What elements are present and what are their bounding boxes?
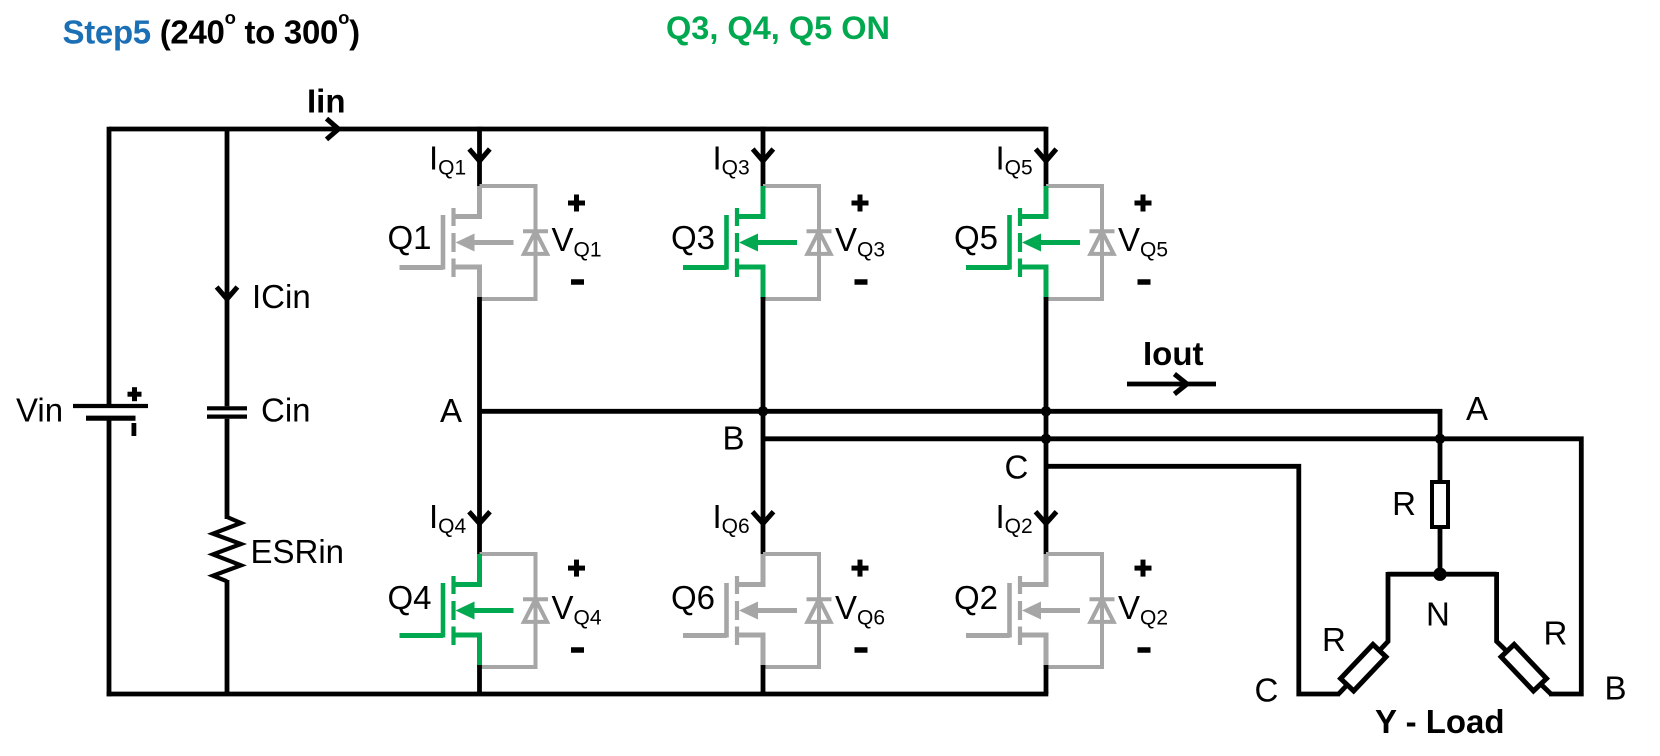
polarity + of VQ2 — [1135, 560, 1152, 577]
wire leg bottom of Q4 — [477, 665, 482, 694]
wire R to node N — [1438, 527, 1443, 574]
wire leg middle (Q3-Q6) — [761, 297, 766, 556]
transistor Q1 — [400, 186, 514, 299]
polarity + of VQ1 — [568, 195, 585, 212]
svg-text:Q2: Q2 — [954, 579, 998, 616]
label VQ4 — [552, 589, 602, 630]
current arrow ICin — [217, 287, 238, 299]
capacitor Cin — [207, 408, 247, 416]
current arrow IQ4 — [469, 512, 490, 524]
polarity - of VQ4 — [571, 647, 584, 653]
label ICin — [252, 278, 311, 315]
svg-text:Q3, Q4, Q5 ON: Q3, Q4, Q5 ON — [666, 10, 890, 46]
wire node N horizontal — [1387, 572, 1496, 577]
svg-text:Vin: Vin — [16, 392, 63, 429]
label Q6 — [671, 579, 715, 616]
svg-text:Cin: Cin — [261, 392, 311, 429]
label R (phase C) — [1322, 621, 1346, 658]
polarity + of VQ5 — [1135, 195, 1152, 212]
label Iin — [307, 83, 346, 120]
polarity - of VQ2 — [1138, 647, 1151, 653]
wire leg bottom of Q6 — [761, 665, 766, 694]
current arrow IQ5 — [1036, 149, 1057, 161]
transistor Q5 — [966, 186, 1080, 299]
label VQ1 — [552, 221, 602, 262]
wire Cin branch lower — [225, 580, 230, 694]
junction dot N — [1433, 568, 1446, 581]
label Q3 — [671, 219, 715, 256]
body diode of Q5 — [1090, 231, 1115, 254]
svg-text:Q1: Q1 — [387, 219, 431, 256]
label IQ6 — [713, 498, 750, 538]
wire leg middle (Q1-Q4) — [477, 297, 482, 556]
wire leg middle (Q5-Q2) — [1044, 297, 1049, 556]
wire phase B — [763, 439, 1581, 694]
label IQ1 — [429, 140, 466, 180]
polarity - of VQ5 — [1138, 279, 1151, 285]
label node B (load) — [1605, 670, 1627, 707]
wire phase C — [1046, 466, 1340, 694]
junction dot phase A wire / phase B wire crossing — [1435, 434, 1445, 444]
svg-text:Q5: Q5 — [954, 219, 998, 256]
svg-text:R: R — [1392, 485, 1416, 522]
transistor Q3 — [683, 186, 797, 299]
wire leg drain of Q3 — [761, 127, 766, 188]
svg-text:R: R — [1544, 615, 1568, 652]
label IQ4 — [429, 498, 467, 538]
svg-text:Y - Load: Y - Load — [1375, 703, 1505, 740]
title Q3, Q4, Q5 ON — [666, 10, 890, 46]
current arrow IQ6 — [753, 512, 774, 524]
svg-text:Q3: Q3 — [671, 219, 715, 256]
svg-text:B: B — [723, 420, 745, 457]
title Step5 (240deg to 300deg) — [63, 7, 360, 51]
label R (phase B) — [1544, 615, 1568, 652]
wire load branch C (N to C corner) — [1339, 572, 1388, 694]
wire Cin branch middle — [225, 419, 230, 519]
svg-text:Iout: Iout — [1143, 335, 1203, 372]
wire leg drain of Q5 — [1044, 127, 1049, 188]
body diode of Q6 — [807, 599, 832, 622]
svg-text:B: B — [1605, 670, 1627, 707]
junction dot phase A / leg B crossing — [758, 406, 768, 416]
wire drain-source loop of Q4 — [480, 554, 536, 667]
label VQ6 — [835, 589, 885, 630]
wire left vertical upper (Vin branch) — [107, 127, 112, 405]
body diode of Q3 — [807, 231, 832, 254]
label node A (at leg) — [440, 392, 462, 429]
label Q1 — [387, 219, 431, 256]
resistor R (phase A) — [1432, 482, 1448, 527]
label node C (load) — [1255, 672, 1279, 709]
wire leg drain of Q1 — [477, 127, 482, 188]
label VQ5 — [1118, 221, 1168, 262]
label Vin — [16, 392, 63, 429]
current arrow Iin — [327, 119, 339, 140]
body diode of Q1 — [523, 231, 548, 254]
label Iout — [1143, 335, 1203, 372]
body diode of Q2 — [1090, 599, 1115, 622]
battery Vin — [73, 387, 148, 436]
transistor Q2 — [966, 554, 1080, 667]
label Q2 — [954, 579, 998, 616]
svg-text:Step5 (240o to 300o): Step5 (240o to 300o) — [63, 7, 360, 51]
transistor Q4 — [400, 554, 514, 667]
label node B (at leg) — [723, 420, 745, 457]
label IQ2 — [996, 498, 1033, 538]
wire drain-source loop of Q2 — [1046, 554, 1102, 667]
current arrow Iout — [1127, 374, 1216, 394]
wire bottom rail — [107, 692, 1049, 697]
current arrow IQ1 — [469, 149, 490, 161]
resistor ESRin — [213, 517, 241, 581]
body diode of Q4 — [523, 599, 548, 622]
wire drain-source loop of Q5 — [1046, 186, 1102, 299]
label Q5 — [954, 219, 998, 256]
label Y - Load — [1375, 703, 1505, 740]
svg-text:C: C — [1255, 672, 1279, 709]
junction dot phase B / leg C crossing — [1041, 434, 1051, 444]
label node N — [1426, 596, 1450, 633]
wire drain-source loop of Q3 — [763, 186, 819, 299]
svg-text:Iin: Iin — [307, 83, 346, 120]
wire load branch B (N to B corner) — [1497, 572, 1551, 694]
svg-text:A: A — [440, 392, 462, 429]
label IQ5 — [996, 140, 1033, 180]
svg-text:ESRin: ESRin — [251, 533, 345, 570]
transistor Q6 — [683, 554, 797, 667]
svg-text:Q4: Q4 — [387, 579, 431, 616]
polarity + of VQ4 — [568, 560, 585, 577]
label Q4 — [387, 579, 431, 616]
label R (phase A) — [1392, 485, 1416, 522]
label IQ3 — [713, 140, 750, 180]
resistor R (phase B) — [1501, 644, 1546, 690]
label node A (load) — [1466, 390, 1488, 427]
svg-text:R: R — [1322, 621, 1346, 658]
resistor R (phase C) — [1341, 644, 1386, 690]
svg-text:N: N — [1426, 596, 1450, 633]
label VQ2 — [1118, 589, 1168, 630]
wire left vertical lower — [107, 420, 112, 696]
svg-text:A: A — [1466, 390, 1488, 427]
polarity - of VQ6 — [855, 647, 868, 653]
current arrow IQ3 — [753, 149, 774, 161]
label Cin — [261, 392, 311, 429]
label node C (at leg) — [1005, 449, 1029, 486]
svg-text:C: C — [1005, 449, 1029, 486]
wire drain-source loop of Q1 — [480, 186, 536, 299]
polarity + of VQ6 — [852, 560, 869, 577]
wire Cin branch upper — [225, 129, 230, 406]
junction dot phase A / leg C crossing — [1041, 406, 1051, 416]
wire phase A — [480, 411, 1441, 484]
label ESRin — [251, 533, 345, 570]
wire top rail — [109, 127, 1046, 132]
polarity + of VQ3 — [852, 195, 869, 212]
label VQ3 — [835, 221, 885, 262]
polarity - of VQ1 — [571, 279, 584, 285]
wire leg bottom of Q2 — [1044, 665, 1049, 694]
wire drain-source loop of Q6 — [763, 554, 819, 667]
current arrow IQ2 — [1036, 512, 1057, 524]
svg-text:Q6: Q6 — [671, 579, 715, 616]
polarity - of VQ3 — [855, 279, 868, 285]
svg-text:ICin: ICin — [252, 278, 311, 315]
